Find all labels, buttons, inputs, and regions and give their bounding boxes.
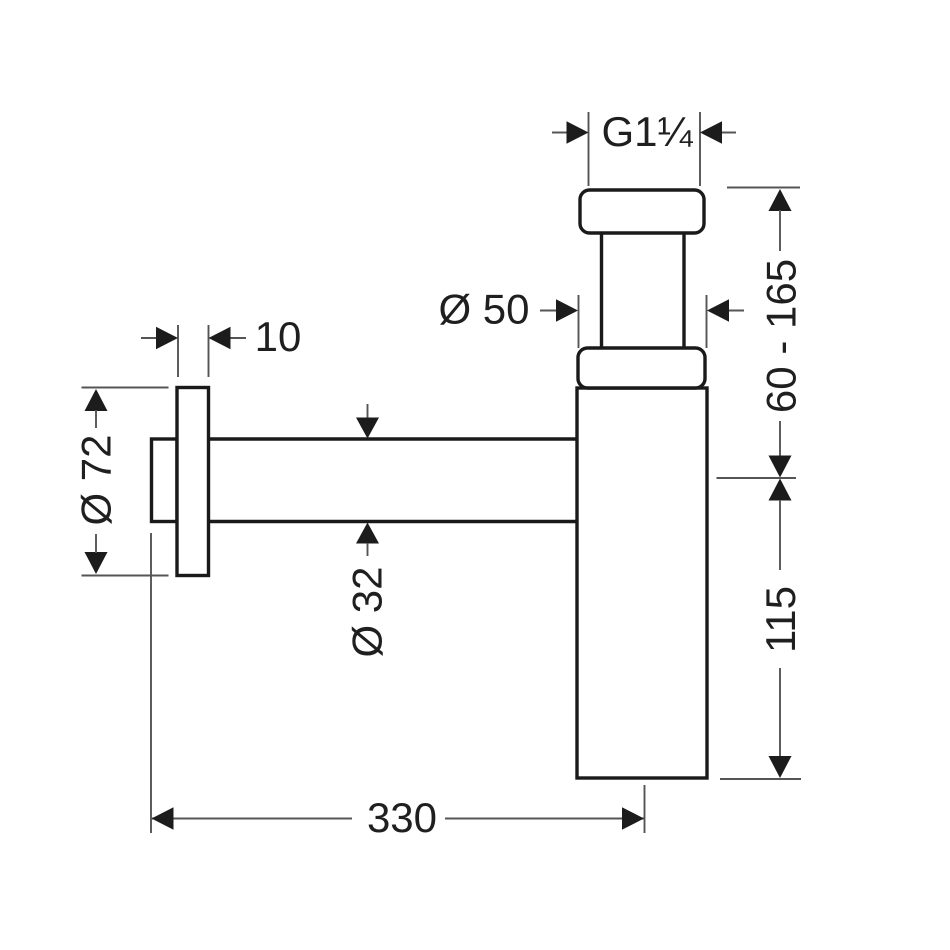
svg-text:330: 330 [367, 794, 437, 841]
svg-text:60 - 165: 60 - 165 [758, 259, 805, 413]
dimension 60-165 top tick [727, 187, 800, 189]
dimension O32 upper arrow line [367, 404, 369, 419]
dimension G1 1/4 right arrow [700, 121, 722, 144]
dimension 115 bottom tick [720, 778, 801, 780]
dimension O72 line segments [95, 410, 97, 553]
dimension O50 extension lines [579, 295, 707, 348]
dimension 330 left arrow [152, 807, 174, 830]
dimension G1 1/4 extension lines [589, 112, 701, 186]
dimension 10 leaders [141, 337, 246, 339]
svg-text:10: 10 [255, 313, 302, 360]
dimension G1 1/4 left arrow [567, 121, 589, 144]
dimension 60-165 down arrow [769, 456, 792, 478]
dimension G1 1/4 leaders [552, 132, 736, 134]
dimension 60-165 up arrow [769, 189, 792, 211]
dimension 115 line segments [779, 500, 781, 757]
dimension O32 lower line [367, 543, 369, 556]
dimension O72 ticks [82, 388, 169, 576]
dimension 330 line [152, 818, 644, 820]
dimension 60-165 line segments [779, 210, 781, 457]
trap body [577, 388, 707, 778]
top cap nut [580, 190, 704, 233]
horizontal outlet pipe [209, 439, 577, 522]
wall flange plate [177, 388, 209, 576]
dimension O50 right arrow [707, 299, 729, 322]
vertical inlet pipe [602, 232, 685, 349]
svg-text:Ø 32: Ø 32 [344, 566, 391, 657]
dimension O72 up arrow [85, 389, 108, 411]
svg-text:Ø 50: Ø 50 [438, 286, 529, 333]
dimension 10 extension lines [178, 325, 209, 377]
svg-text:Ø 72: Ø 72 [73, 434, 120, 525]
dimension 330 extension lines [151, 533, 645, 833]
dimension O72 down arrow [85, 552, 108, 574]
dimension 10 left arrow [156, 327, 178, 350]
dimension 10 right arrow [209, 327, 231, 350]
dimension 330 right arrow [622, 807, 644, 830]
dimension O32 up arrow [356, 523, 379, 544]
svg-text:115: 115 [757, 586, 804, 653]
svg-text:G1¼: G1¼ [601, 108, 693, 155]
dimension mid tick (pipe axis) [717, 477, 797, 479]
lower flange nut [578, 348, 705, 388]
dimension O50 left arrow [556, 299, 578, 322]
pipe stub through wall [152, 439, 178, 522]
dimension O50 leaders [540, 310, 744, 312]
dimension 115 up arrow [769, 479, 792, 501]
dimension O32 down arrow [356, 418, 379, 439]
dimension 115 down arrow [769, 756, 792, 778]
